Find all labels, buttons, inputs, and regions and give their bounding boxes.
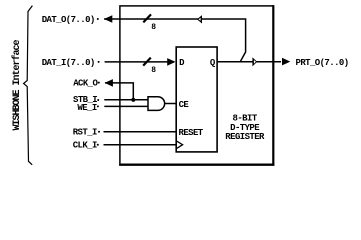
dot after ACK_O label <box>98 82 100 84</box>
svg-text:REGISTER: REGISTER <box>225 132 265 142</box>
svg-text:RST_I: RST_I <box>73 128 97 138</box>
svg-text:RESET: RESET <box>179 128 204 138</box>
bus slash DAT_O <box>143 14 151 22</box>
svg-text:8: 8 <box>151 66 156 75</box>
svg-text:WE_I: WE_I <box>77 103 96 113</box>
direction arrow on Q line (open, right-pointing) <box>252 57 257 66</box>
arrowhead ACK_O (solid, left) <box>105 79 113 87</box>
arrowhead PRT_O (solid, right) <box>282 58 290 66</box>
wire RST_I <box>104 131 177 133</box>
bus slash DAT_I <box>143 58 151 66</box>
wire Q output to PRT_O <box>217 61 281 63</box>
outer box right edge (thick) <box>272 5 274 165</box>
wire CLK_I <box>104 144 177 146</box>
svg-text:PRT_O(7..0): PRT_O(7..0) <box>296 58 349 68</box>
dot after DAT_O label <box>97 18 99 20</box>
svg-text:DAT_O(7..0): DAT_O(7..0) <box>42 15 95 25</box>
arrowhead DAT_I (solid, right, at D input) <box>167 58 175 66</box>
dot after CLK_I label <box>97 144 99 146</box>
clock input triangle <box>177 141 183 148</box>
arrowhead DAT_O (solid, left) <box>104 15 112 23</box>
junction dot on STB line <box>131 98 135 102</box>
dot after RST_I label <box>98 131 100 133</box>
outer box bottom edge (thick) <box>119 163 274 165</box>
dot after DAT_I label <box>98 61 100 63</box>
svg-text:WISHBONE Interface: WISHBONE Interface <box>11 39 23 130</box>
wire DAT_O feedback net: horizontal at y=19, corner down at x=245.6, diagonal to Q line <box>104 19 246 62</box>
wire ACK_O tap from STB line <box>105 83 133 100</box>
svg-text:8: 8 <box>151 23 156 32</box>
direction arrow on feedback line (left-pointing) <box>197 15 202 23</box>
register box U1 (8-bit D-type register) <box>176 47 217 152</box>
outer block box <box>120 6 273 165</box>
wire AND output to CE <box>165 103 176 105</box>
svg-text:CLK_I: CLK_I <box>73 141 97 151</box>
svg-text:DAT_I(7..0): DAT_I(7..0) <box>42 58 95 68</box>
AND gate (STB & WE -> CE) <box>148 97 165 111</box>
brace (WISHBONE interface group) <box>24 6 33 165</box>
dot after STB_I label <box>97 99 99 101</box>
wire STB_I <box>104 99 148 101</box>
dot after WE_I label <box>97 105 99 107</box>
wire WE_I <box>104 105 148 107</box>
svg-text:ACK_O: ACK_O <box>73 79 98 89</box>
wire DAT_I <box>105 61 174 63</box>
svg-text:CE: CE <box>179 100 190 110</box>
